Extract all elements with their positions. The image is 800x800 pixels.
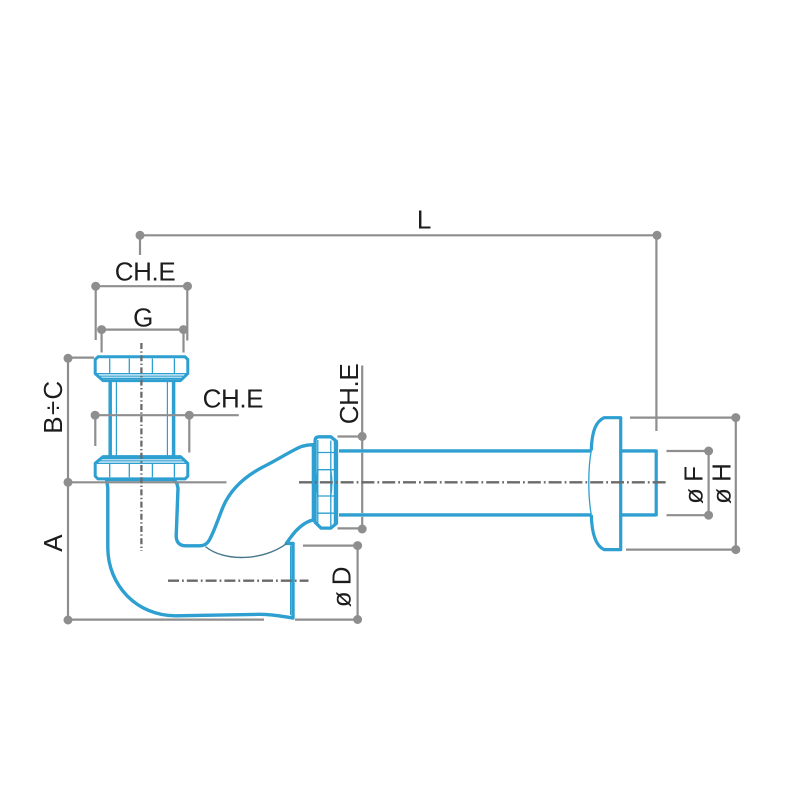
svg-text:ø F: ø F: [679, 467, 709, 505]
horizontal centerline of trap bottom: [168, 580, 309, 582]
dot G left: [97, 325, 106, 334]
horizontal centerline of outlet pipe: [299, 481, 667, 483]
dot G right: [179, 325, 188, 334]
CH.E pipe-nut vertical line middle: [361, 453, 363, 513]
CH.E pipe-nut vertical line lower: [361, 517, 363, 529]
dot ø F top: [704, 447, 713, 456]
horizontal outlet pipe: [338, 450, 656, 517]
dot CH.E pipe-nut bottom: [358, 525, 367, 534]
CH.E pipe-nut bottom extension: [338, 527, 363, 529]
svg-text:CH.E: CH.E: [115, 257, 176, 287]
svg-text:CH.E: CH.E: [203, 384, 264, 414]
dimension CH.E (top nut) line: [96, 285, 188, 287]
dot CH.E top right: [183, 282, 192, 291]
CH.E pipe-nut top extension: [338, 435, 363, 437]
dimension A vertical line: [67, 482, 69, 620]
CH.E top left extension: [95, 288, 97, 340]
dot ø F bottom: [704, 511, 713, 520]
extension line under trap bottom, right part toward ø D: [295, 618, 358, 620]
dimension ø F vertical line: [707, 451, 709, 515]
dot CH.E mid right: [185, 411, 194, 420]
dot B÷C/A junction: [64, 478, 73, 487]
dot A bottom: [64, 616, 73, 625]
ø F bottom extension: [667, 514, 709, 516]
shared A/B÷C extension line to trap centerline: [68, 481, 227, 483]
svg-text:ø D: ø D: [326, 567, 356, 607]
G left extension: [100, 331, 102, 353]
CH.E top right extension: [186, 288, 188, 341]
wall flange (rosette): [589, 418, 621, 550]
dimension L right drop: [655, 237, 657, 431]
top compression nut: [95, 357, 188, 381]
dot L right: [653, 231, 662, 240]
vertical centerline of inlet tube: [140, 343, 142, 551]
thin inner intersection arc inside trap outlet: [206, 544, 286, 558]
dimension L line: [140, 234, 657, 236]
dot L left: [136, 231, 145, 240]
dimension G line: [102, 329, 184, 331]
ø H top extension: [630, 417, 736, 419]
svg-text:B÷C: B÷C: [38, 380, 68, 434]
ø H bottom extension: [626, 548, 736, 550]
outlet pipe nut: [315, 437, 336, 528]
dot CH.E top left: [91, 282, 100, 291]
dimension ø D vertical line: [357, 546, 359, 620]
inlet tube between the two nuts: [110, 378, 174, 460]
dot CH.E mid left: [91, 411, 100, 420]
thin inner edge of outlet stub cut: [290, 546, 292, 615]
dimension CH.E (bottom nut) line: [95, 414, 239, 416]
B÷C top extension to nut: [68, 357, 94, 359]
ø D top extension: [303, 544, 358, 546]
dot ø D bottom: [353, 615, 362, 624]
svg-text:L: L: [417, 204, 431, 234]
dimension B÷C vertical line: [67, 358, 69, 482]
bottom compression nut: [95, 457, 188, 479]
dimension L left drop: [139, 237, 141, 255]
CH.E mid left extension: [94, 417, 96, 446]
dot CH.E pipe-nut top: [358, 432, 367, 441]
extension line under trap bottom (dimension A / ø D baseline), left part: [68, 618, 264, 620]
svg-text:A: A: [38, 534, 68, 552]
dot ø D top: [353, 541, 362, 550]
dot ø H bottom: [731, 545, 740, 554]
CH.E mid right extension: [188, 417, 190, 453]
svg-text:CH.E: CH.E: [334, 364, 364, 425]
dot ø H top: [731, 413, 740, 422]
svg-text:G: G: [133, 302, 153, 332]
dimension ø H vertical line: [735, 418, 737, 550]
dot B÷C top: [64, 354, 73, 363]
svg-text:ø H: ø H: [706, 464, 736, 504]
ø F top extension: [667, 450, 709, 452]
dimension CH.E (pipe nut) vertical line upper: [361, 366, 363, 450]
siphon trap body (inlet socket, U-bend, outlet stub, riser elbow): [107, 445, 314, 618]
G right extension: [182, 331, 184, 353]
